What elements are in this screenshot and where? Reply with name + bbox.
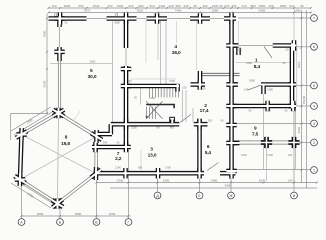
axis circle V (93, 219, 100, 226)
stair tread (163, 88, 165, 97)
dim tick (46, 112, 48, 114)
svg-text:1790: 1790 (165, 166, 171, 170)
svg-text:150: 150 (182, 87, 187, 90)
svg-text:1485: 1485 (267, 88, 273, 92)
axis circle 5 (311, 82, 318, 89)
top dim number (300, 4, 304, 8)
svg-text:720: 720 (107, 4, 112, 8)
dim hline room1 (236, 62, 290, 64)
dimension line right col 2 (306, 10, 308, 188)
dim tick (127, 181, 129, 183)
porch rail a (233, 140, 296, 142)
svg-text:2730: 2730 (169, 79, 175, 83)
dim tick (157, 11, 159, 13)
svg-text:1000: 1000 (212, 4, 219, 8)
svg-text:6300: 6300 (259, 9, 266, 13)
dimension line bottom 2 (110, 187, 317, 189)
east wall cross y106 (288, 104, 296, 109)
interior dim number (117, 141, 120, 145)
interior dim number (249, 109, 252, 113)
stair tread lower (149, 107, 151, 119)
svg-text:105: 105 (288, 153, 293, 157)
east wall (290, 43, 295, 108)
hex LR cross stub (94, 171, 99, 176)
window east block north (239, 45, 273, 47)
axis leader 3 (236, 123, 311, 125)
axis circle 3 (311, 120, 318, 127)
hex bottom dim number (75, 212, 82, 216)
north wall cross at axis B (58, 13, 63, 25)
top dim number (289, 4, 294, 8)
axis leader V (96, 177, 98, 218)
dimension line top row 1 (48, 7, 311, 9)
hex NW dim (26, 118, 34, 125)
hex diagonal vertical (58, 113, 59, 204)
top dim number row2 (212, 9, 219, 13)
right dim number 2 (297, 126, 301, 133)
wall x231 cross y143 (226, 141, 236, 146)
axis circle 2 (311, 139, 318, 146)
dim line hex SW offset 2 (15, 180, 55, 205)
stair tread (175, 88, 177, 97)
interior dim number (265, 109, 271, 113)
east block north wall cross x294 (292, 40, 297, 50)
axis circle D (154, 192, 161, 199)
hex window edge LR-UR (95, 137, 98, 174)
svg-text:2: 2 (313, 141, 315, 145)
dim tick (300, 17, 302, 19)
svg-text:1300: 1300 (267, 153, 273, 157)
room 9 area (252, 131, 259, 137)
hex vertex LR bar toward UR (94, 167, 99, 180)
left dim number 2 (43, 80, 47, 87)
dim tick (157, 7, 159, 9)
stair tread lower (152, 107, 154, 119)
axis leader 2 (296, 142, 311, 144)
window mid vertical wall (125, 48, 127, 66)
top dim number (280, 4, 287, 8)
leader x231 top (231, 13, 233, 16)
dim tick (95, 215, 97, 217)
wall x231 cross y45 (226, 43, 236, 48)
interior dim number (288, 153, 293, 157)
svg-text:Π: Π (54, 13, 57, 17)
dim tick (293, 11, 295, 13)
stair arrow diagonal (146, 101, 162, 119)
stair dim vline d (185, 90, 187, 122)
dim tick (125, 7, 127, 9)
svg-text:880: 880 (250, 4, 255, 8)
hex vertex UL bar toward T (16, 131, 27, 138)
top dim number (93, 4, 100, 8)
interior dim number (238, 48, 243, 52)
wall y106 cross x267 (265, 101, 270, 111)
wall y147 cross x124 (124, 142, 129, 152)
svg-text:2680: 2680 (249, 79, 255, 83)
wall y124 cross x126 (124, 119, 129, 129)
interior vertical wall x126 upper (124, 16, 129, 48)
top dim number row2 (175, 9, 182, 13)
axis circle 4 (311, 103, 318, 110)
axis leader 6 (296, 46, 311, 48)
room 9 number (254, 126, 257, 132)
dim tick (199, 11, 201, 13)
svg-text:250: 250 (231, 4, 236, 8)
svg-text:2980: 2980 (212, 9, 219, 13)
svg-text:3620: 3620 (137, 9, 144, 13)
axis leader 5 (296, 85, 311, 87)
room 3 number (150, 146, 153, 152)
interior dim number (286, 48, 289, 52)
stair landing square (170, 117, 175, 121)
wall x126 cross y69 (121, 67, 131, 72)
dim tick (135, 7, 137, 9)
south wall cross x125 (123, 168, 128, 178)
svg-text:1980: 1980 (211, 178, 218, 182)
svg-text:13,0: 13,0 (148, 153, 157, 159)
stair handrail (146, 105, 174, 109)
axis circle I (291, 192, 298, 199)
room1 partition x238 (236, 48, 241, 55)
svg-text:390: 390 (202, 4, 207, 8)
svg-text:Г: Г (128, 220, 130, 224)
axis leader 7 (238, 17, 311, 19)
porch column 2 vertical (292, 137, 297, 148)
dim tick (199, 7, 201, 9)
stair dim vline b (165, 21, 167, 84)
svg-text:2,2: 2,2 (115, 156, 122, 162)
dim line room5 horizontal (50, 62, 112, 64)
svg-text:2340: 2340 (117, 178, 124, 182)
dim tick (46, 68, 48, 70)
dim tick (310, 11, 312, 13)
interior dim number (115, 166, 121, 170)
svg-text:1500: 1500 (117, 4, 124, 8)
dim tick (300, 141, 302, 143)
dimension line top row 2 (48, 12, 311, 14)
top dim number row2 (259, 9, 266, 13)
dim vline room4 left (145, 21, 147, 63)
south wall cross x231 (229, 168, 234, 179)
wall white cores (15, 13, 297, 209)
dimension line bottom hex (22, 215, 131, 217)
hex bottom dim number (109, 212, 116, 216)
stairwell right wall (175, 84, 180, 92)
interior vertical wall x126 lower (124, 66, 129, 149)
svg-text:1560: 1560 (265, 109, 271, 113)
wall x126 cross y86 (121, 84, 131, 89)
svg-text:90: 90 (193, 4, 197, 8)
svg-text:2140: 2140 (115, 166, 121, 170)
north wall segment 1 (49, 16, 87, 21)
stairwell top wall (126, 84, 179, 89)
axis circle G (125, 219, 132, 226)
interior dim number (283, 61, 286, 65)
dark mark under top row b (115, 13, 118, 17)
room7 side line (140, 150, 142, 170)
bottom dim number (259, 178, 266, 182)
stair tread (157, 88, 159, 97)
hex LL cross stub (15, 177, 25, 182)
hall south wall seg 3 (261, 82, 294, 87)
bottom dim number (117, 178, 124, 182)
wall y124 cross x199 (197, 119, 202, 130)
room 8 number (65, 134, 68, 140)
svg-text:1200: 1200 (294, 9, 301, 13)
room 6 number (207, 144, 210, 150)
axis leader A (21, 186, 23, 218)
axis circle E (196, 192, 203, 199)
interior dim number (208, 119, 213, 123)
top dim number row2 (137, 9, 144, 13)
svg-text:960: 960 (170, 126, 175, 130)
corridor wall y124 seg 1 (111, 122, 179, 127)
leader below cross158 (157, 21, 159, 60)
south wall cross x158 (156, 168, 161, 178)
dim tick (166, 7, 168, 9)
bottom dim number row2 (225, 184, 232, 188)
top dim number row2 (294, 9, 301, 13)
hex UL cross stub (16, 132, 26, 137)
interior dim number (246, 61, 252, 65)
top dim number (202, 4, 207, 8)
top dim number (183, 4, 188, 8)
top dim number (241, 4, 246, 8)
dim tick (230, 11, 232, 13)
dim tick (46, 51, 48, 53)
vertical wall x200 stub (198, 71, 203, 87)
room 6 area (205, 150, 212, 156)
top dim number (107, 4, 112, 8)
bottom dim number (211, 178, 218, 182)
hex vertex T bar toward UL (53, 110, 64, 117)
hex window edge B-LR (57, 173, 97, 205)
south wall seg 1 (96, 171, 204, 176)
top dim number (128, 4, 133, 8)
svg-text:6250: 6250 (297, 126, 301, 133)
svg-text:3: 3 (313, 122, 315, 126)
room 3 area (148, 153, 157, 159)
svg-text:1890: 1890 (37, 212, 44, 216)
bottom dim number (287, 178, 292, 182)
axis circle B (57, 219, 64, 226)
porch east thin vline (295, 108, 297, 170)
window north 4 (210, 18, 224, 20)
dim tick (293, 7, 295, 9)
left dim number (43, 30, 47, 37)
dim vline ne (238, 21, 240, 43)
beam double line a (200, 72, 240, 74)
hex vertex LR bar toward B (91, 170, 101, 178)
top dim number (193, 4, 197, 8)
svg-text:1300: 1300 (159, 4, 166, 8)
svg-text:И: И (293, 194, 296, 198)
stair landing boundary (139, 88, 141, 104)
interior dim number (157, 126, 160, 130)
wall x231 cross y84 (226, 82, 236, 87)
svg-text:3810: 3810 (297, 61, 301, 68)
door leaf wall C (180, 115, 191, 123)
interior dim number (267, 153, 273, 157)
east block north wall seg 2 (273, 43, 296, 48)
dim tick (20, 215, 22, 217)
stair arrowhead (146, 115, 149, 118)
wall x231 arm y143 (232, 141, 240, 146)
stair tread (172, 88, 174, 97)
east wall outer leader (296, 48, 298, 106)
south wall cross x199 (197, 168, 202, 179)
top dim number (212, 4, 219, 8)
north wall segment 4 (190, 16, 210, 21)
stair arrow diagonal 2 (146, 101, 162, 119)
svg-text:6: 6 (313, 45, 315, 49)
svg-text:26,0: 26,0 (172, 50, 181, 56)
hex vertex B bar toward LR (52, 200, 62, 208)
dim tick (105, 7, 107, 9)
dim vline room4b (196, 21, 198, 70)
dim line hex SW offset 1 (11, 183, 51, 208)
svg-text:2980: 2980 (114, 21, 120, 25)
stub below wall y84 x263 (261, 85, 266, 95)
room 1 area (254, 64, 261, 70)
door leaf hall east (248, 85, 261, 90)
stair tread (169, 88, 171, 97)
beam double line b (200, 75, 240, 77)
svg-text:510: 510 (289, 4, 294, 8)
interior dim number (138, 166, 143, 170)
north wall cross x158 (155, 13, 160, 23)
porch column 1 vertical (264, 137, 269, 148)
stair tread (149, 88, 151, 97)
wall y134 from hex (97, 132, 113, 137)
interior dim number (267, 88, 273, 92)
svg-text:1650: 1650 (280, 4, 287, 8)
svg-text:7440: 7440 (175, 9, 182, 13)
room 4 area (172, 50, 181, 56)
dim tick (310, 7, 312, 9)
stair tread lower (146, 107, 148, 119)
hex diagonal UL-LR (22, 135, 97, 174)
svg-text:90: 90 (219, 4, 223, 8)
svg-text:2620: 2620 (259, 178, 266, 182)
dim tick (145, 7, 147, 9)
dim tick (47, 11, 49, 13)
svg-text:1: 1 (313, 168, 315, 172)
stair tread (152, 88, 154, 97)
hex UR cross stub (94, 134, 99, 139)
east wall cross y84 (288, 82, 296, 87)
dim tick (316, 181, 318, 183)
top dim number (138, 4, 143, 8)
dim tick (300, 169, 302, 171)
top dim number (175, 4, 180, 8)
svg-text:15200: 15200 (302, 95, 306, 104)
right dim number 3 (302, 95, 306, 104)
top dim number row2 (84, 9, 91, 13)
dim tick (230, 7, 232, 9)
axis circle 7 (311, 15, 318, 22)
svg-text:1260: 1260 (149, 96, 155, 100)
dim line room5 vertical (112, 21, 114, 122)
top dim number (250, 4, 255, 8)
dimension line left (46, 14, 48, 113)
svg-text:400: 400 (268, 4, 273, 8)
axis circle 1 (311, 167, 318, 174)
interior vertical wall x231 (229, 16, 234, 173)
wall y147 cross x95 (93, 142, 98, 152)
axis leader I (293, 108, 295, 192)
wall x231 cross y171 (226, 169, 236, 174)
room 2 area (200, 108, 209, 114)
interior dim number (114, 21, 120, 25)
interior dim number (149, 96, 155, 100)
axis circle A (18, 219, 25, 226)
dim tick (59, 215, 61, 217)
svg-text:5: 5 (313, 84, 315, 88)
porch column 1 horizontal (261, 140, 272, 145)
stair tread (166, 88, 168, 97)
hex vertex UR bar toward LR (94, 130, 99, 143)
hex vertex LL bar toward UL (17, 173, 22, 186)
dim tick (125, 11, 127, 13)
interior dim number (165, 166, 171, 170)
north wall cross x124 (124, 13, 129, 25)
hex window edge UR-T (58, 112, 97, 138)
svg-text:1500: 1500 (163, 178, 170, 182)
west wall upper segment (57, 16, 62, 27)
east block south wall (229, 104, 296, 109)
interior dim number (169, 79, 175, 83)
svg-text:5,4: 5,4 (205, 150, 212, 156)
dim tick (198, 181, 200, 183)
top dim number (268, 4, 273, 8)
east block north wall seg 1 (229, 43, 238, 48)
top dim number (168, 4, 173, 8)
svg-text:140: 140 (287, 178, 292, 182)
hex window edge LL-B (19, 178, 58, 204)
dim tick (46, 17, 48, 19)
svg-text:3000: 3000 (43, 30, 47, 37)
room 5 area (88, 74, 97, 80)
dim line hex NW offset 2 (15, 111, 55, 135)
north wall corner cross x231 (229, 13, 234, 25)
north wall segment 2 (107, 16, 137, 21)
svg-text:940: 940 (103, 141, 108, 145)
north wall segment 5 (224, 16, 236, 21)
stair text dim (182, 87, 187, 90)
room5 dim number (90, 60, 96, 64)
dark mark under top row a (54, 13, 57, 17)
door leaf hex (74, 111, 80, 120)
hall south wall seg 2 (228, 82, 239, 87)
hex T cross stub (56, 108, 61, 118)
stair tread (160, 88, 162, 97)
room 5 number (90, 68, 93, 74)
dimension line right col 1 (301, 10, 303, 183)
dim tick (209, 7, 211, 9)
svg-text:149: 149 (244, 88, 249, 92)
svg-text:120: 120 (51, 4, 56, 8)
stair dim vline a (160, 21, 162, 84)
west wall lower window line a (57, 60, 59, 108)
interior dim number (131, 126, 137, 130)
top dim number (219, 4, 223, 8)
svg-text:1540: 1540 (93, 4, 100, 8)
window north 3 (167, 18, 190, 20)
wall x126 cross y124 (124, 122, 129, 127)
svg-text:710: 710 (241, 4, 246, 8)
top dim number (259, 4, 266, 8)
